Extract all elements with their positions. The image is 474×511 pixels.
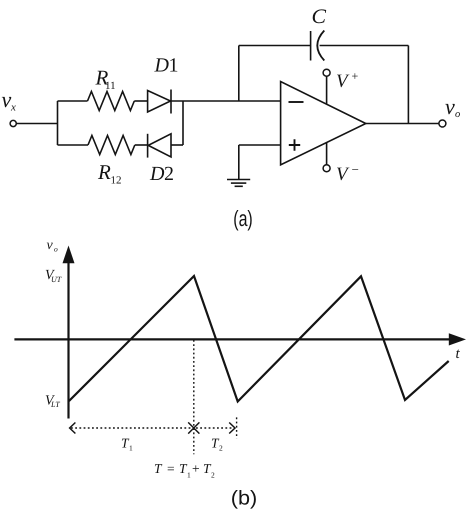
supply V+ (326, 76, 328, 104)
wire feedback tap vertical (238, 46, 240, 102)
svg-text:11: 11 (105, 80, 116, 92)
svg-text:o: o (54, 245, 58, 254)
supply V- (326, 143, 328, 165)
svg-text:+: + (192, 461, 200, 476)
svg-text:v: v (445, 94, 455, 119)
svg-text:v: v (2, 87, 12, 112)
wire R12 to D2 (135, 144, 148, 146)
svg-text:D: D (154, 55, 170, 77)
wire feedback left (239, 45, 311, 47)
resistor R11 (88, 92, 135, 111)
input terminal vx (10, 120, 16, 126)
svg-text:LT: LT (50, 400, 60, 409)
svg-text:2: 2 (211, 470, 215, 479)
wire R11 to D1 (134, 100, 147, 102)
wire top branch (58, 100, 88, 102)
svg-text:T: T (154, 461, 163, 476)
ground (238, 145, 240, 179)
svg-text:2: 2 (219, 444, 223, 453)
op-amp U1 (281, 82, 366, 165)
dotted vertical at T1 end (193, 340, 195, 454)
svg-text:V: V (336, 71, 350, 92)
capacitor C (310, 31, 312, 61)
svg-text:(a): (a) (233, 206, 253, 231)
wire plus input (239, 144, 281, 146)
wire D1 to op-amp (171, 100, 281, 102)
svg-text:=: = (167, 461, 175, 476)
svg-text:1: 1 (187, 470, 191, 479)
svg-text:x: x (10, 102, 16, 114)
svg-text:o: o (455, 109, 460, 120)
wire connector vertical (182, 101, 184, 145)
svg-text:12: 12 (111, 175, 122, 187)
diode D1 (148, 91, 171, 113)
wire output (366, 123, 439, 125)
output terminal vo (439, 120, 446, 127)
svg-text:1: 1 (169, 55, 179, 77)
waveform (69, 276, 449, 402)
wire feedback right vertical (407, 46, 409, 124)
svg-text:D: D (149, 163, 165, 185)
svg-text:V: V (336, 164, 350, 185)
svg-text:+: + (352, 69, 359, 83)
resistor R12 (88, 136, 135, 155)
wire input (17, 123, 58, 125)
wire bottom branch (58, 144, 89, 146)
arrow T1 (71, 427, 192, 429)
wire D2 to connector (171, 144, 183, 146)
node branch junction (57, 101, 59, 145)
svg-text:−: − (352, 162, 359, 177)
svg-text:t: t (456, 346, 461, 362)
x-axis t (14, 338, 450, 340)
svg-text:(b): (b) (231, 488, 258, 510)
diode D2 (148, 134, 171, 157)
svg-text:C: C (312, 6, 327, 28)
dotted vertical at T2 end (236, 417, 238, 438)
svg-text:v: v (47, 238, 54, 253)
svg-text:R: R (97, 160, 111, 184)
svg-text:1: 1 (129, 444, 133, 453)
svg-text:UT: UT (51, 275, 62, 284)
wire feedback right (320, 45, 409, 47)
y-axis vo (67, 262, 69, 419)
svg-text:2: 2 (164, 163, 174, 185)
arrow T2 (196, 427, 233, 429)
